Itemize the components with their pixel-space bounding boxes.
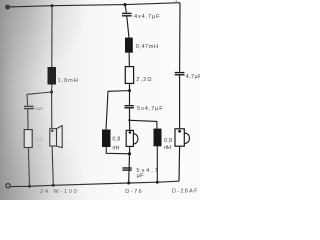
node: top junction midrange branch	[123, 3, 126, 6]
svg-text:0,8: 0,8	[112, 136, 120, 142]
node: bottom junction tweeter shunt	[156, 181, 159, 184]
svg-text:4x4,7µF: 4x4,7µF	[134, 14, 160, 20]
capacitor C4 4,7uF	[175, 72, 185, 73]
resistor R1	[24, 130, 32, 148]
speck (scan artifact)	[176, 0, 178, 2]
wire	[27, 109, 29, 129]
wire	[129, 146, 130, 183]
node: bottom junction midrange	[127, 182, 130, 185]
speaker SP3 tweeter D-28AF	[175, 129, 184, 146]
svg-text:mH: mH	[164, 145, 171, 151]
wire: midrange main vertical	[125, 5, 126, 13]
wire: midrange shunt branch (from node B)	[106, 91, 130, 130]
wire	[129, 109, 131, 131]
svg-text:D-76: D-76	[125, 189, 141, 195]
speaker SP1 woofer 24 W-100	[50, 129, 57, 146]
wire: tweeter shunt branch (from node C)	[130, 120, 158, 129]
wire: top horizontal bus from input terminal to top-right corner	[10, 3, 181, 7]
wire	[128, 53, 130, 67]
node: top junction woofer branch	[51, 4, 54, 7]
svg-text:0,47mH: 0,47mH	[136, 44, 158, 50]
svg-text:µF: µF	[137, 173, 145, 179]
node A (junction below L1)	[50, 91, 53, 94]
wire	[28, 148, 29, 187]
wire	[127, 17, 129, 38]
wire	[179, 76, 181, 129]
wire	[156, 146, 158, 182]
inductor L1 1,8mH	[48, 67, 57, 85]
node B (below R2)	[128, 89, 131, 92]
capacitor C2 5x4,7uF	[125, 105, 134, 106]
wire: bottom return bus	[10, 181, 179, 186]
wire	[178, 146, 181, 181]
inductor L3 0,8mH	[102, 130, 111, 148]
svg-text:5x4,7µF: 5x4,7µF	[137, 106, 163, 112]
terminal: input plus (top left)	[5, 5, 10, 10]
svg-text:1,8mH: 1,8mH	[58, 78, 78, 84]
svg-text:D-28AF: D-28AF	[172, 189, 198, 195]
svg-text:0,8: 0,8	[164, 138, 172, 144]
node D (below SP2)	[128, 152, 131, 155]
node: bottom junction woofer	[52, 184, 55, 187]
node: bottom junction left branch	[28, 185, 31, 188]
wire: left main vertical (woofer branch)	[51, 6, 53, 67]
svg-text:4,7µF: 4,7µF	[186, 74, 200, 80]
svg-text:24µF: 24µF	[35, 106, 44, 111]
capacitor C5 24uF	[24, 106, 34, 107]
scanned page background	[0, 0, 200, 200]
svg-text:mH: mH	[112, 145, 119, 151]
inductor L4 0,8mH	[154, 129, 162, 147]
node C	[128, 119, 130, 121]
wire: tweeter main vertical (right edge)	[179, 3, 181, 72]
resistor R2 2,2ohm	[125, 67, 133, 84]
svg-text:6,8: 6,8	[37, 137, 44, 142]
capacitor C3 5x4,7uF	[122, 167, 131, 168]
speaker SP2 midrange D-76	[126, 130, 133, 146]
wire	[129, 83, 131, 105]
inductor L2 0,47mH	[125, 38, 133, 53]
wire	[106, 147, 129, 154]
capacitor C1 4x4,7uF	[122, 13, 132, 14]
wire: left RC sub-branch from node below L1	[27, 92, 52, 106]
svg-text:2,2Ω: 2,2Ω	[136, 77, 151, 83]
terminal: input minus (bottom left)	[6, 184, 10, 188]
